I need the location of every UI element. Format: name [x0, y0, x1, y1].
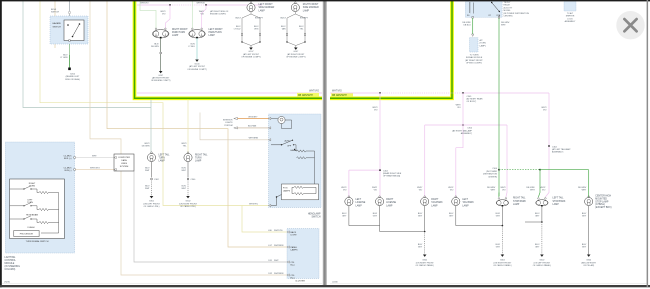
svg-text:LEFT: LEFT [356, 199, 362, 201]
svg-text:VIO: VIO [419, 190, 423, 192]
node junction dot [462, 92, 464, 94]
svg-text:GRY: GRY [582, 216, 587, 218]
svg-text:BLK/: BLK/ [418, 213, 423, 215]
wire DB GRN/WHT main vertical [498, 18, 501, 196]
svg-text:BLK/: BLK/ [496, 244, 501, 246]
svg-text:BLK/: BLK/ [182, 186, 187, 188]
wire gray feed into hazard switch [68, 1, 71, 16]
viewer top border [0, 0, 650, 1]
svg-text:WHT/: WHT/ [144, 143, 150, 145]
ground G200 black square [68, 68, 71, 71]
svg-text:WHT: WHT [501, 25, 506, 27]
svg-text:BLK/: BLK/ [236, 26, 241, 28]
svg-text:BLK/: BLK/ [145, 168, 150, 170]
ground G304 [587, 255, 591, 257]
hazard switch contact detail [64, 20, 84, 41]
svg-text:MOUNTED: MOUNTED [595, 198, 607, 200]
wire WHT/VIO drop to right license lamp [379, 93, 382, 197]
wire ORG/GRY [238, 117, 269, 120]
lamp right front side marker [291, 2, 299, 12]
wire ground CHMSL [588, 206, 590, 255]
svg-text:LR230: LR230 [4, 281, 11, 283]
resistor in fog box [294, 186, 304, 188]
svg-text:FOG: FOG [283, 188, 288, 190]
svg-text:GRY: GRY [373, 216, 378, 218]
connector arrow on wire [472, 34, 474, 36]
svg-text:WHT: WHT [491, 190, 496, 192]
svg-text:GRY: GRY [496, 247, 501, 249]
svg-text:L0030: L0030 [332, 281, 338, 283]
svg-text:B(+): B(+) [291, 278, 295, 280]
svg-text:WHT/BRN: WHT/BRN [274, 245, 284, 247]
node dot [502, 225, 504, 227]
resistor high beam [39, 221, 49, 223]
svg-text:BLNK: BLNK [51, 9, 57, 11]
svg-text:(BEHIND LEFT: (BEHIND LEFT [66, 76, 80, 78]
svg-text:CONTROL: CONTROL [5, 260, 17, 262]
processor box [14, 231, 39, 237]
highlighted DB GRN/WHT traced wire left page [135, 0, 323, 98]
svg-text:BLK/: BLK/ [418, 244, 423, 246]
close button [616, 11, 644, 39]
relay coil [469, 2, 470, 13]
svg-text:RIGHT FRONT: RIGHT FRONT [303, 4, 319, 6]
wire WHT/YEL run from top-left to headlamp switch pin [40, 1, 269, 206]
svg-text:WHT/VIO: WHT/VIO [332, 91, 342, 93]
lamp left tail turn [147, 152, 155, 162]
node dot [541, 221, 543, 223]
wire ground left+right license lamps [349, 206, 425, 232]
svg-text:LEFT: LEFT [27, 199, 33, 201]
relay contact [492, 3, 500, 12]
svg-text:PROCESSOR: PROCESSOR [20, 234, 34, 236]
svg-text:WHT: WHT [145, 170, 150, 172]
ground G100 left front [195, 60, 199, 62]
svg-text:CENTER): CENTER) [488, 176, 497, 178]
wire WHT/VIO branch to right stop lamp [425, 125, 507, 197]
svg-text:VIO: VIO [343, 190, 347, 192]
wire WHT/VIO drop to left tail park lamp [456, 148, 463, 197]
wire DB GRN dashed branch [499, 168, 540, 171]
wire WHT/BRN tan run to cluster pin 2 [107, 1, 287, 247]
ground G107 left marker [249, 48, 253, 50]
node ground junction dot [424, 231, 426, 233]
svg-text:DB GRN/: DB GRN/ [578, 187, 587, 189]
lamp left tail stop/park [536, 198, 548, 207]
svg-text:GRY: GRY [535, 216, 540, 218]
viewer left border [0, 0, 2, 287]
connector on lamp ground wire [160, 52, 162, 54]
svg-text:C2-MUX: C2-MUX [64, 167, 73, 169]
svg-text:RIGHT: RIGHT [29, 183, 36, 185]
node junction dot [379, 92, 381, 94]
connector C302 [151, 178, 153, 180]
wire WHT/ORG mux- [75, 168, 114, 170]
svg-text:WHT/VIO: WHT/VIO [309, 91, 319, 93]
wire WHT/VIO drop to left front park/turn lamp [202, 5, 206, 29]
svg-text:(EXCEPT BOX): (EXCEPT BOX) [595, 207, 611, 209]
svg-text:LIGHTS: LIGHTS [225, 122, 233, 124]
svg-text:WHT/: WHT/ [448, 187, 454, 189]
label DB GRN/WHT highlighted [297, 93, 319, 97]
wire green into right stop lamp [498, 193, 501, 198]
svg-text:SHIFTER: SHIFTER [566, 16, 575, 18]
svg-text:TURN: TURN [195, 158, 202, 160]
svg-text:VIO: VIO [542, 190, 546, 192]
page divider [323, 1, 327, 285]
wire BLK/LT BLU below left front park/turn lamp [196, 38, 199, 60]
svg-text:WHT: WHT [582, 190, 587, 192]
svg-text:WHT/: WHT/ [540, 187, 546, 189]
svg-text:LIGHT: LIGHT [291, 235, 298, 237]
svg-text:VIO: VIO [450, 190, 454, 192]
svg-text:BLK/: BLK/ [582, 213, 587, 215]
svg-text:BLK/: BLK/ [145, 186, 150, 188]
svg-text:LIGHTING: LIGHTING [5, 257, 16, 259]
svg-text:OF ENGINE COMPT): OF ENGINE COMPT) [187, 69, 207, 71]
svg-text:RIGHT: RIGHT [386, 199, 394, 201]
svg-text:RIGHT: RIGHT [431, 199, 439, 201]
wire LT GRN to right front park/turn lamp [140, 1, 156, 29]
ground G302 left stop [540, 255, 544, 257]
viewer bottom border [0, 285, 650, 287]
svg-text:LEFT: LEFT [462, 199, 468, 201]
svg-text:WHT/: WHT/ [541, 107, 547, 109]
svg-text:EXCEPT: EXCEPT [300, 17, 309, 19]
svg-text:WHT: WHT [181, 170, 186, 172]
svg-text:BLK/: BLK/ [342, 213, 347, 215]
svg-text:LICENSE: LICENSE [356, 202, 366, 204]
wire WHT/VIO front lamps feed [137, 4, 262, 7]
svg-text:WHT/ORG: WHT/ORG [90, 167, 100, 169]
wire teal run from top-left to left tail turn lamp [23, 1, 151, 108]
svg-text:SWITCH: SWITCH [51, 12, 59, 14]
node C304 dot [462, 124, 464, 126]
ground G301 [150, 196, 154, 198]
svg-text:WHT: WHT [530, 190, 535, 192]
wire pale yellow drop to right tail turn lamp [187, 100, 190, 153]
svg-text:EXCEPT: EXCEPT [255, 17, 264, 19]
connector on marker wire [304, 34, 306, 36]
svg-text:BLK/: BLK/ [299, 26, 304, 28]
connector circle on hazard feed [68, 11, 70, 13]
svg-text:LGD: LGD [268, 230, 273, 232]
wire DB GRN solid branch to CHMSL [540, 170, 589, 198]
svg-text:GRY: GRY [418, 247, 423, 249]
svg-text:OF ENG COMPT): OF ENG COMPT) [466, 63, 482, 65]
svg-text:LT BLU: LT BLU [234, 29, 241, 31]
svg-text:BLK/: BLK/ [496, 213, 501, 215]
svg-text:(IN POWER DISTRIBUTION: (IN POWER DISTRIBUTION [504, 13, 530, 15]
switch contacts right turn [10, 186, 37, 189]
pin arrow mux- [114, 168, 116, 170]
resistor left turn [39, 208, 49, 210]
svg-text:BUS (+): BUS (+) [64, 158, 72, 160]
svg-text:DB BLU: DB BLU [463, 25, 471, 27]
svg-text:BLK/: BLK/ [449, 213, 454, 215]
svg-text:DB GRN/: DB GRN/ [462, 22, 471, 24]
turn signal switch inner box [10, 179, 65, 239]
wire BLK/TAN [238, 127, 269, 129]
svg-text:LEFT FRONT: LEFT FRONT [209, 29, 224, 31]
resistor 2 in fog box [294, 193, 304, 195]
connector on marker wire [259, 34, 261, 36]
viewer right border [647, 0, 649, 287]
node dot [241, 41, 242, 42]
svg-text:ORG: ORG [254, 29, 259, 31]
wire below left tail turn lamp [151, 162, 153, 178]
svg-text:BUS (-): BUS (-) [65, 170, 72, 172]
lamp right tail turn [184, 152, 192, 162]
svg-text:MODEL: MODEL [504, 10, 512, 12]
fog switch contact [271, 195, 282, 206]
svg-text:BLK/: BLK/ [281, 26, 286, 28]
svg-text:LEFT FRONT: LEFT FRONT [259, 4, 274, 6]
svg-text:(ON LEFT FRONT: (ON LEFT FRONT [534, 262, 551, 264]
node junction dot [169, 4, 171, 6]
svg-text:(ON RIGHT FRONT: (ON RIGHT FRONT [416, 262, 435, 264]
hazard switch box [50, 16, 88, 44]
lamp right tail stop/park [496, 198, 508, 207]
svg-text:(IN POWER: (IN POWER [486, 171, 497, 173]
svg-text:GRY: GRY [342, 216, 347, 218]
lighting control module dashed box [5, 142, 74, 253]
svg-text:TURN: TURN [159, 158, 166, 160]
svg-text:DB GRN/: DB GRN/ [526, 187, 535, 189]
node junction dot [205, 4, 207, 6]
dashed ground wire [151, 181, 153, 197]
svg-text:(BELOW RIGHT: (BELOW RIGHT [581, 262, 596, 264]
svg-text:OF ENGINE COMPT): OF ENGINE COMPT) [241, 57, 261, 59]
svg-text:DB GRN/WHT: DB GRN/WHT [298, 95, 313, 97]
svg-text:CENTER HIGH: CENTER HIGH [595, 196, 611, 198]
svg-text:LINES: LINES [121, 163, 128, 165]
svg-text:MODULE: MODULE [5, 263, 15, 265]
svg-text:DB GRN/WHT: DB GRN/WHT [332, 95, 347, 97]
svg-text:VIO: VIO [162, 14, 166, 16]
svg-text:(TURN: (TURN [480, 43, 487, 45]
svg-text:WHT/VIO: WHT/VIO [140, 3, 149, 5]
svg-text:WHT/VIO: WHT/VIO [196, 3, 205, 5]
svg-text:COLUMN): COLUMN) [5, 269, 16, 271]
resistor in headlamp switch [297, 150, 307, 152]
combination flasher small box [470, 38, 479, 52]
lamp left tail park [452, 196, 460, 206]
svg-text:LT BLU: LT BLU [188, 46, 195, 48]
cluster pins [287, 231, 289, 233]
svg-text:BLK/: BLK/ [63, 55, 68, 57]
pin arrows on headlamp switch [269, 117, 271, 119]
resistor 2 in headlamp switch [297, 157, 307, 159]
wire WHT/BRN into headlamp switch [200, 113, 269, 140]
svg-text:SWITCH: SWITCH [311, 216, 320, 218]
wire WHT/VIO branch to left license lamp [349, 170, 380, 196]
svg-text:WHT/: WHT/ [500, 187, 506, 189]
connector on marker wire [286, 34, 288, 36]
svg-text:COMPUTER: COMPUTER [118, 157, 130, 159]
connector C300 [187, 178, 189, 180]
svg-text:TS RLY: TS RLY [504, 2, 512, 4]
lamp left license [345, 196, 353, 206]
svg-text:WHT/: WHT/ [417, 187, 423, 189]
dashed ground wire to G302 [424, 232, 426, 255]
wire WHT mux+ [75, 156, 114, 158]
svg-text:LOCK: LOCK [567, 18, 573, 20]
wire pair below right side marker [287, 12, 305, 48]
ground G302 [423, 255, 427, 257]
svg-text:WHT/: WHT/ [160, 11, 166, 13]
svg-text:OFF: OFF [287, 145, 292, 147]
node dot [259, 41, 260, 42]
dashed ground wire [541, 222, 543, 255]
lamp left front park/turn [189, 28, 206, 38]
vertical bus in switch [41, 193, 59, 234]
dashed ground wire [187, 181, 189, 197]
svg-text:OF BODY): OF BODY) [467, 101, 477, 103]
svg-text:DB GRN: DB GRN [151, 46, 159, 48]
ground G302 [186, 196, 190, 198]
wire WHT/YEL branch to cluster [242, 206, 287, 233]
svg-text:BLK/: BLK/ [373, 213, 378, 215]
svg-text:WHT/: WHT/ [341, 187, 347, 189]
relay box in power distribution center [465, 1, 502, 18]
label DB GRN/WHT highlighted [331, 93, 353, 97]
svg-text:GRY: GRY [582, 247, 587, 249]
svg-text:LICENSE: LICENSE [386, 202, 396, 204]
svg-text:WHT/: WHT/ [456, 104, 462, 106]
svg-text:(ON LEFT FRONT: (ON LEFT FRONT [143, 203, 160, 205]
wire DB GRN drop to left stop lamp [538, 170, 540, 197]
wire WHT/VIO drop to right tail park lamp [423, 125, 426, 197]
wire below right tail turn lamp [187, 162, 189, 178]
svg-text:VIO: VIO [543, 110, 547, 112]
headlamp switch dashed box [269, 114, 322, 208]
svg-text:WHT/BRN: WHT/BRN [274, 273, 284, 275]
wire teal drop to left tail turn lamp [150, 100, 153, 153]
wire ground left stop lamp [525, 206, 542, 222]
dashed ground wire to G302 [501, 226, 503, 255]
svg-text:BLK/: BLK/ [182, 168, 187, 170]
svg-text:VIO: VIO [457, 107, 461, 109]
wire ground right stop lamp [501, 206, 503, 226]
svg-text:B(+): B(+) [291, 265, 295, 267]
svg-text:WHT/: WHT/ [199, 11, 205, 13]
lamp right license [376, 196, 384, 206]
wire DB GRN/DB BLU from relay [471, 18, 474, 34]
svg-text:BUILT: BUILT [280, 17, 286, 19]
wire ground right tail park lamp [424, 206, 426, 232]
svg-text:OF ENGINE COMPT): OF ENGINE COMPT) [151, 80, 171, 82]
svg-text:WHT/: WHT/ [372, 107, 378, 109]
svg-text:WHT: WHT [145, 188, 150, 190]
svg-text:BLK/: BLK/ [254, 26, 259, 28]
panel lamp inside headlamp switch [278, 116, 285, 123]
svg-text:WHT/: WHT/ [181, 143, 187, 145]
svg-text:(IN STEERING: (IN STEERING [5, 266, 21, 268]
svg-text:VIO: VIO [374, 190, 378, 192]
svg-text:GRY: GRY [496, 216, 501, 218]
pin arrow mux+ [114, 156, 116, 158]
svg-text:BLK/: BLK/ [582, 244, 587, 246]
svg-text:BUILT: BUILT [235, 17, 241, 19]
svg-text:DB GRN/: DB GRN/ [501, 22, 510, 24]
wire BLK below right front park/turn lamp [159, 38, 161, 71]
svg-text:WHT: WHT [181, 188, 186, 190]
svg-text:GRY: GRY [418, 216, 423, 218]
svg-text:SWITCH: SWITCH [53, 27, 62, 29]
wire WHT/VIO drop to right front park/turn lamp [165, 5, 170, 29]
svg-text:SYSTEM: SYSTEM [224, 125, 233, 127]
wire WHT from data link box to cluster pin 3 [134, 171, 287, 262]
svg-text:BLK/: BLK/ [154, 44, 159, 46]
svg-text:WHT/YEL: WHT/YEL [274, 230, 284, 232]
svg-text:DB GRN/: DB GRN/ [487, 187, 496, 189]
lamp left front side marker [247, 2, 255, 12]
switch contacts left turn [10, 203, 37, 206]
svg-text:(ON RIGHT FRONT: (ON RIGHT FRONT [179, 203, 198, 205]
svg-text:(ON RIGHT FRONT: (ON RIGHT FRONT [493, 262, 512, 264]
svg-text:C2-MUX: C2-MUX [64, 155, 73, 157]
svg-text:OF ENGINE COMPT): OF ENGINE COMPT) [286, 57, 306, 59]
highlighted DB GRN/WHT traced wire right page [330, 0, 452, 98]
wire pair below left side marker [242, 12, 260, 48]
right page footer line [330, 283, 647, 285]
lamp CHMSL [585, 196, 593, 206]
shifter assembly box [564, 1, 576, 12]
wire BLK/LT GRN hazard ground [68, 44, 70, 55]
node dot [286, 41, 287, 42]
svg-text:WHT: WHT [92, 155, 97, 157]
resistor right turn [39, 191, 49, 193]
wire WHT/VIO pink main horizontal left page [137, 92, 322, 95]
svg-text:BLK/: BLK/ [535, 244, 540, 246]
svg-text:SYSTEM: SYSTEM [120, 166, 129, 168]
lamp right tail park [421, 196, 429, 206]
svg-text:BLK/: BLK/ [535, 213, 540, 215]
svg-text:GRY: GRY [449, 216, 454, 218]
switch contacts high beam [10, 216, 37, 219]
ground G107 right marker [294, 48, 298, 50]
svg-text:WHT: WHT [274, 260, 279, 262]
svg-text:DISTRIBUTION: DISTRIBUTION [483, 174, 498, 176]
svg-text:WHT/YEL: WHT/YEL [249, 203, 259, 205]
svg-text:INTERIOR: INTERIOR [223, 120, 233, 122]
svg-text:ORG/GRY: ORG/GRY [248, 116, 258, 118]
svg-text:RIGHT FRONT: RIGHT FRONT [172, 29, 188, 31]
node green junction [498, 169, 500, 171]
lamp right front park/turn [152, 28, 169, 38]
fog lamps sub box [282, 184, 319, 200]
ground G107 right front [159, 71, 163, 73]
wire ground left tail park lamp [456, 206, 503, 226]
wire WHT/VIO drop to left stop lamp [545, 93, 549, 197]
connector on marker wire [241, 34, 243, 36]
wire WHT/VIO vertical C304 right [462, 93, 465, 148]
wire tan stub from top [54, 1, 57, 48]
node green C300 dot [539, 169, 541, 171]
svg-text:DB GRN: DB GRN [142, 146, 150, 148]
ground G302 right stop [501, 255, 505, 257]
svg-text:ENGINE COMPT): ENGINE COMPT) [210, 14, 226, 16]
svg-text:CENTER): CENTER) [504, 16, 513, 18]
wire WHT/VIO main horizontal right page [330, 92, 549, 95]
svg-text:TO TURN: TO TURN [470, 55, 479, 57]
computer data lines system box [114, 154, 134, 171]
svg-text:VIO: VIO [502, 190, 506, 192]
svg-text:BLK/: BLK/ [191, 44, 196, 46]
svg-text:VIO: VIO [201, 14, 205, 16]
svg-text:GRY: GRY [535, 247, 540, 249]
